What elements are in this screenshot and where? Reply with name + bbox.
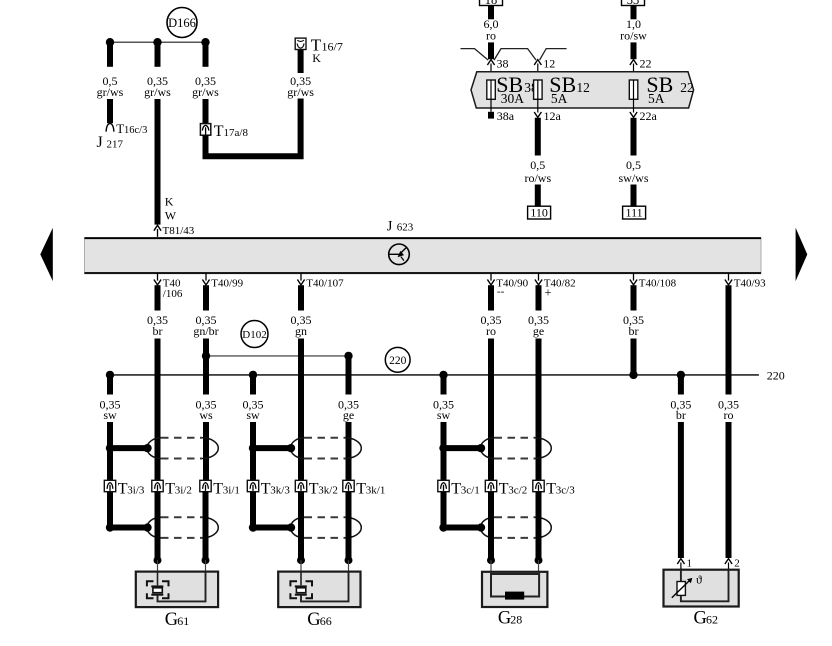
svg-text:ro: ro	[724, 408, 734, 422]
label T17a/8	[214, 123, 249, 140]
connector T3k/1 box	[343, 480, 354, 491]
terminal T40/107 arrow	[297, 274, 304, 285]
svg-text:3i/3: 3i/3	[127, 485, 145, 497]
wire 6,0 ro to SB38	[488, 42, 494, 59]
fuse SB12 symbol	[534, 80, 543, 99]
connector T17a/8 box	[200, 124, 210, 136]
terminal arrow 12a	[534, 99, 541, 117]
connector T3c/2 box	[485, 480, 496, 491]
knock sensor G66 box	[278, 572, 360, 608]
svg-text:220: 220	[389, 355, 407, 367]
svg-text:33: 33	[627, 0, 640, 7]
control unit J623 band	[85, 237, 762, 273]
shield top bar G61	[106, 444, 152, 452]
svg-text:5A: 5A	[551, 91, 568, 106]
junction dot D166 middle	[153, 38, 161, 46]
page arrow left	[40, 228, 53, 281]
junction dot 220 g1	[106, 371, 114, 379]
svg-text:T: T	[546, 481, 556, 498]
label pin 22	[640, 57, 652, 71]
label 0,35 sw (G28)	[433, 398, 454, 423]
wire G66 left pin	[297, 492, 305, 574]
terminal T40/108 arrow	[630, 274, 637, 285]
svg-text:T: T	[499, 481, 509, 498]
svg-text:K: K	[312, 51, 321, 65]
connector T3k/2 box	[295, 480, 306, 491]
wire 0,35 br (T40/108) lower	[631, 339, 637, 375]
label T3i/2	[165, 481, 192, 498]
label T40/107	[306, 277, 344, 289]
svg-text:3c/1: 3c/1	[461, 485, 480, 497]
label T81/43	[163, 225, 195, 237]
svg-text:T: T	[165, 481, 175, 498]
svg-text:T40/107: T40/107	[306, 277, 344, 289]
svg-text:gr/ws: gr/ws	[144, 85, 171, 99]
wire D166 net horizontal	[110, 41, 206, 43]
wire 0,35 br (G62) lower	[678, 422, 684, 558]
label T3i/3	[118, 481, 145, 498]
wire 0,35 gr/ws to T17a/8 upper	[203, 42, 209, 67]
svg-text:T: T	[116, 121, 124, 136]
wire 0,35 gr/ws to T17a/8 lower	[203, 99, 209, 124]
svg-text:ϑ: ϑ	[696, 572, 702, 586]
shield top bar G28	[439, 444, 485, 452]
connector T3c/1 box	[438, 480, 449, 491]
svg-text:--: --	[497, 286, 505, 298]
terminal T40/90 arrow	[487, 274, 494, 285]
junction dot D166 left	[106, 38, 114, 46]
wire 0,5 sw/ws upper	[631, 118, 637, 156]
svg-text:16c/3: 16c/3	[124, 125, 147, 136]
label T3k/2	[309, 481, 338, 498]
wire 0,35 sw (G66) upper	[250, 375, 256, 395]
junction dot 220 T40/108	[629, 371, 637, 379]
label T40/90 minus	[496, 277, 528, 297]
svg-text:W: W	[165, 209, 177, 223]
label 0,35 ge (group2)	[338, 398, 359, 423]
label 0,35 ge (T40/82)	[528, 313, 549, 338]
label T3c/2	[499, 481, 527, 498]
label 12a	[544, 109, 562, 123]
connector T3i/1 box	[200, 480, 211, 491]
terminal box 33	[622, 0, 645, 7]
svg-text:ro/ws: ro/ws	[524, 171, 551, 185]
svg-text:gn/br: gn/br	[193, 324, 218, 338]
terminal box 18	[480, 0, 503, 7]
wire 0,5 sw/ws lower	[631, 185, 637, 207]
fuse SB38 symbol	[487, 80, 496, 99]
node D166 circle label	[167, 8, 197, 38]
svg-text:2: 2	[734, 558, 740, 570]
label 0,35 gn	[291, 313, 312, 338]
wire 0,35 sw (G61) upper	[107, 375, 113, 395]
terminal T40/106 arrow	[154, 274, 161, 285]
wire 0,35 ge (group2) upper	[346, 356, 352, 395]
svg-text:3k/2: 3k/2	[318, 485, 338, 497]
junction dot D166 right	[201, 38, 209, 46]
terminal box 111	[623, 205, 646, 219]
svg-text:G: G	[165, 610, 178, 630]
label J623	[387, 219, 414, 235]
svg-text:T40/108: T40/108	[639, 277, 677, 289]
terminal T81/43 arrow	[154, 225, 161, 237]
svg-text:22a: 22a	[640, 109, 658, 123]
svg-text:217: 217	[107, 139, 124, 151]
svg-text:66: 66	[320, 614, 332, 628]
shield bottom G28	[481, 517, 552, 538]
label K (T16/7)	[312, 51, 321, 65]
svg-text:gr/ws: gr/ws	[287, 85, 314, 99]
wire 6,0 ro from 18	[488, 6, 494, 20]
connector T3i/2 box	[152, 480, 163, 491]
label 0,35 gr/ws (T17a/8 wire)	[192, 74, 219, 99]
svg-text:3i/2: 3i/2	[175, 485, 192, 497]
wire 0,35 br (T40/106) upper	[155, 285, 161, 310]
svg-text:5A: 5A	[648, 91, 665, 106]
svg-text:T: T	[118, 481, 128, 498]
terminal arrow 38	[487, 60, 494, 80]
label pin 38	[497, 57, 509, 71]
wire 0,35 br (G62) upper	[678, 375, 684, 395]
svg-text:D102: D102	[242, 329, 266, 341]
wire 0,5 gr/ws to T16c/3 lower	[107, 99, 113, 123]
wire 0,35 sw (G28) lower	[441, 422, 447, 531]
svg-text:110: 110	[530, 205, 548, 219]
svg-text:12: 12	[576, 80, 590, 95]
svg-text:3k/3: 3k/3	[270, 485, 290, 497]
svg-text:ge: ge	[533, 324, 544, 338]
svg-text:sw: sw	[437, 408, 451, 422]
wire stub 38a	[490, 99, 492, 118]
wire 0,35 gn/br (T40/99) upper	[203, 285, 209, 310]
label G62 pin 1	[687, 558, 693, 570]
svg-text:J: J	[97, 134, 103, 151]
shield bottom bar G61	[106, 523, 152, 531]
junction dot 220 g2	[249, 371, 257, 379]
label T3c/3	[546, 481, 575, 498]
wire 0,35 ro (T40/90) lower	[488, 339, 494, 481]
svg-text:J: J	[387, 219, 393, 235]
junction dot D102 left	[202, 352, 210, 360]
svg-text:22: 22	[680, 80, 694, 95]
svg-text:1: 1	[687, 558, 693, 570]
wire 0,5 gr/ws to T16c/3 upper	[107, 42, 113, 67]
svg-text:ws: ws	[199, 408, 213, 422]
svg-text:+: +	[545, 286, 552, 300]
label G62	[694, 608, 719, 628]
label SB38 30A	[496, 72, 538, 106]
wire 0,35 gr/ws T81/43 main	[155, 99, 161, 225]
label G28	[498, 609, 522, 629]
terminal T40/93 arrow	[725, 274, 732, 285]
svg-text:38: 38	[497, 57, 509, 71]
svg-text:/106: /106	[163, 288, 183, 300]
svg-text:G: G	[307, 610, 320, 630]
svg-text:3k/1: 3k/1	[366, 485, 386, 497]
svg-text:T: T	[451, 481, 461, 498]
shield bottom G66	[291, 517, 362, 538]
connector T3k/3 box	[247, 480, 258, 491]
terminal T40/99 arrow	[202, 274, 209, 285]
connector T3i/3 box	[104, 480, 115, 491]
svg-text:0,5: 0,5	[530, 158, 545, 172]
wire 0,35 gr/ws below T16/7	[298, 50, 304, 74]
svg-text:30A: 30A	[501, 91, 525, 106]
wire 0,35 ge (group2) lower	[346, 422, 352, 480]
label G62 pin 2	[734, 558, 740, 570]
wire 1,0 ro/sw to SB22	[631, 42, 637, 59]
label 0,35 br (G62)	[670, 398, 691, 423]
svg-text:T81/43: T81/43	[163, 225, 195, 237]
label 22a	[640, 109, 658, 123]
wire G28 right pin	[535, 492, 543, 574]
svg-text:12: 12	[543, 57, 555, 71]
wire G28 left pin	[487, 492, 495, 574]
wire 0,35 gn (T40/107) lower	[298, 339, 304, 481]
label T3i/1	[213, 481, 240, 498]
label T16/7	[311, 36, 343, 55]
terminal arrow 12	[534, 60, 541, 80]
label 0,35 br	[147, 313, 168, 338]
svg-text:T40/99: T40/99	[211, 277, 243, 289]
svg-text:28: 28	[510, 613, 522, 627]
wire 0,35 sw (G61) lower	[107, 422, 113, 531]
label 0,35 sw (G66)	[243, 398, 264, 423]
wire 0,35 ro (G62) upper	[726, 285, 732, 394]
svg-text:gr/ws: gr/ws	[97, 85, 124, 99]
wire 0,5 ro/ws upper	[535, 118, 541, 156]
fuse SB22 symbol	[629, 80, 638, 99]
junction dot 220 g3	[439, 371, 447, 379]
svg-text:T: T	[213, 481, 223, 498]
svg-text:ro/sw: ro/sw	[620, 29, 647, 43]
label 0,5 gr/ws	[97, 74, 124, 99]
svg-text:gn: gn	[295, 324, 307, 338]
wire 0,5 ro/ws lower	[535, 185, 541, 207]
svg-text:K: K	[165, 195, 174, 209]
wire 0,35 gn (T40/107) upper	[298, 285, 304, 310]
label T40/108	[639, 277, 677, 289]
relay J217 label	[97, 134, 124, 151]
svg-text:17a/8: 17a/8	[224, 127, 249, 139]
svg-text:22: 22	[640, 57, 652, 71]
svg-text:ro: ro	[486, 29, 496, 43]
node 220 circle label	[385, 347, 410, 372]
label T40/82 plus	[544, 277, 576, 299]
wire G61 left pin	[154, 492, 162, 574]
label G66	[307, 610, 332, 630]
svg-text:3c/3: 3c/3	[556, 485, 575, 497]
svg-text:T40/93: T40/93	[734, 277, 766, 289]
fuse panel SB strip	[471, 72, 694, 108]
svg-text:br: br	[153, 324, 163, 338]
label 0,35 ro (G62)	[718, 398, 739, 423]
svg-text:111: 111	[626, 205, 643, 219]
label T40/99	[211, 277, 243, 289]
wire 0,35 sw (G66) lower	[250, 422, 256, 531]
svg-text:sw/ws: sw/ws	[618, 171, 648, 185]
terminal T40/82 arrow	[535, 274, 542, 285]
node D102 circle label	[241, 321, 268, 348]
label 0,35 gr/ws (T16/7 wire)	[287, 74, 314, 99]
label 1,0 ro/sw	[620, 17, 647, 42]
wire 0,35 br (T40/108) upper	[631, 285, 637, 310]
engine speed sensor G28 box	[482, 572, 547, 607]
shield top G28	[481, 438, 552, 459]
label K (T81/43 wire)	[165, 195, 174, 209]
label 0,35 ro (T40/90)	[481, 313, 502, 338]
terminal G62 pin2 arrow	[725, 559, 732, 571]
wire 0,35 gn/br to D102	[203, 339, 209, 356]
wire G61 right pin	[202, 492, 210, 574]
svg-text:T: T	[214, 123, 224, 140]
wire 0,35 br (T40/106) lower	[155, 339, 161, 481]
svg-text:sw: sw	[103, 408, 117, 422]
label 0,35 gr/ws (T81/43 wire)	[144, 74, 171, 99]
label SB12 5A	[549, 72, 590, 106]
svg-text:G: G	[694, 608, 707, 628]
svg-text:3i/1: 3i/1	[223, 485, 240, 497]
shield top bar G66	[249, 444, 295, 452]
svg-text:220: 220	[767, 368, 785, 382]
wire 0,35 ws lower	[203, 422, 209, 480]
terminal arrow 22	[630, 60, 637, 80]
page arrow right	[796, 228, 808, 281]
wire 1,0 ro/sw from 33	[631, 6, 637, 20]
connector T3c/3 box	[533, 480, 544, 491]
label net 220	[767, 368, 785, 382]
wire 220 net horizontal	[110, 374, 759, 376]
label 0,5 sw/ws	[618, 158, 648, 185]
solder joint crow-foot	[461, 49, 567, 61]
shield top G61	[147, 438, 218, 459]
svg-text:62: 62	[706, 612, 718, 626]
svg-text:sw: sw	[246, 408, 260, 422]
svg-text:ge: ge	[343, 408, 354, 422]
label W (T81/43 wire)	[165, 209, 177, 223]
wire 0,35 sw (G28) upper	[441, 375, 447, 395]
shield top G66	[291, 438, 362, 459]
label 38a	[497, 109, 515, 123]
label pin 12	[543, 57, 555, 71]
junction dot 220 G62	[677, 371, 685, 379]
svg-text:br: br	[629, 324, 639, 338]
wire 0,35 ws upper	[203, 356, 209, 395]
svg-text:D166: D166	[168, 16, 196, 30]
shield bottom G61	[147, 517, 218, 538]
label T40/106	[163, 277, 183, 300]
terminal G62 pin1 arrow	[677, 559, 684, 571]
label T3k/3	[261, 481, 291, 498]
junction dot D102 right	[344, 352, 352, 360]
label 0,35 br (T40/108)	[623, 313, 644, 338]
terminal box 110	[528, 205, 551, 219]
wire 0,35 ro (G62) lower	[726, 422, 732, 558]
shield bottom bar G66	[249, 523, 295, 531]
svg-text:gr/ws: gr/ws	[192, 85, 219, 99]
control unit symbol circle	[389, 244, 410, 265]
label 0,35 gn/br	[193, 313, 218, 338]
svg-text:T: T	[309, 481, 319, 498]
svg-text:3c/2: 3c/2	[508, 485, 527, 497]
label 0,5 ro/ws	[524, 158, 551, 185]
wire D102 net horizontal	[206, 355, 349, 357]
terminal T16c/3 female	[106, 123, 114, 131]
label 0,35 ws	[196, 398, 217, 423]
label T40/93	[734, 277, 766, 289]
svg-text:br: br	[676, 408, 686, 422]
svg-text:T: T	[356, 481, 366, 498]
wire 0,35 ge (T40/82) upper	[536, 285, 542, 310]
terminal arrow 22a	[630, 99, 637, 117]
label T3k/1	[356, 481, 385, 498]
svg-text:61: 61	[177, 614, 189, 628]
wire elbow T17a/8 to T16/7	[206, 99, 301, 157]
svg-text:ro: ro	[486, 324, 496, 338]
label SB22 5A	[646, 72, 693, 106]
wire 0,35 ge (T40/82) lower	[536, 339, 542, 481]
label T3c/1	[451, 481, 479, 498]
svg-text:12a: 12a	[544, 109, 562, 123]
label T16c/3	[116, 121, 147, 136]
label 0,35 sw (G61)	[100, 398, 121, 423]
svg-text:16/7: 16/7	[322, 40, 343, 54]
label G61	[165, 610, 190, 630]
svg-text:38a: 38a	[497, 109, 515, 123]
shield bottom bar G28	[439, 523, 485, 531]
wire G66 right pin	[345, 492, 353, 574]
knock sensor G61 box	[136, 572, 218, 608]
wire 0,35 gr/ws T81/43 upper	[155, 42, 161, 67]
svg-text:T: T	[261, 481, 271, 498]
label 6,0 ro	[484, 17, 499, 42]
terminal T16/7 box	[295, 38, 306, 49]
svg-text:0,5: 0,5	[626, 158, 641, 172]
coolant temp sensor G62 box	[664, 570, 739, 607]
svg-text:623: 623	[397, 222, 414, 234]
wire 0,35 ro (T40/90) upper	[488, 285, 494, 310]
